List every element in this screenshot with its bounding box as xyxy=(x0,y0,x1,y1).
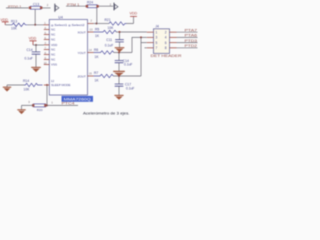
svg-text:6: 6 xyxy=(165,41,167,45)
IC U4 MMA7260Q xyxy=(49,15,87,95)
capacitor C17 xyxy=(115,76,135,95)
svg-text:13: 13 xyxy=(90,28,93,32)
svg-text:10K: 10K xyxy=(108,26,115,30)
wire xyxy=(94,23,110,25)
svg-text:VDD: VDD xyxy=(29,37,37,41)
resistor R24 xyxy=(86,0,99,7)
svg-text:1: 1 xyxy=(44,22,46,25)
svg-text:PTA6: PTA6 xyxy=(185,34,198,38)
ground xyxy=(115,48,125,52)
svg-text:R24: R24 xyxy=(87,0,93,4)
svg-text:15: 15 xyxy=(89,72,92,76)
svg-text:7: 7 xyxy=(156,46,158,50)
wire R21 to VDD xyxy=(127,16,134,23)
junction at sleep pin xyxy=(46,84,48,86)
power VDD right xyxy=(130,12,138,17)
svg-text:1K: 1K xyxy=(95,55,100,59)
wire sleep down xyxy=(46,85,48,105)
svg-text:C14: C14 xyxy=(27,48,33,52)
wire from R23 down to g-Select1 net xyxy=(34,9,36,25)
svg-text:C11: C11 xyxy=(106,38,112,42)
svg-text:2: 2 xyxy=(165,31,167,35)
svg-text:0.1uF: 0.1uF xyxy=(126,86,134,90)
svg-text:R20: R20 xyxy=(37,108,43,112)
wire from chain2 down to g-Select2 net xyxy=(96,8,98,24)
power VDD at IC xyxy=(29,37,37,46)
ground xyxy=(17,110,25,114)
svg-text:3: 3 xyxy=(156,36,158,40)
resistor R23 xyxy=(29,2,43,9)
svg-text:PTD3: PTD3 xyxy=(185,39,198,43)
svg-text:R13: R13 xyxy=(11,20,17,24)
svg-text:R14: R14 xyxy=(23,79,29,83)
svg-text:ZOUT: ZOUT xyxy=(78,74,86,78)
pin stubs left NC rows xyxy=(44,30,50,65)
wire YOUT right xyxy=(114,52,132,54)
svg-text:R5: R5 xyxy=(95,28,99,32)
svg-text:C13: C13 xyxy=(33,2,39,6)
port PTM xyxy=(113,3,115,11)
wire ZOUT up to J4 pin5 xyxy=(141,37,147,76)
svg-text:U4: U4 xyxy=(58,15,63,19)
svg-text:PTM 1: PTM 1 xyxy=(67,3,80,7)
connector J4 xyxy=(151,25,183,59)
svg-text:PTA7: PTA7 xyxy=(185,28,198,32)
svg-text:2: 2 xyxy=(110,2,112,6)
port PTD0 xyxy=(54,4,56,12)
wire ZOUT right xyxy=(113,75,141,77)
pin 2 stub g-Select2 xyxy=(88,23,94,25)
svg-text:12: 12 xyxy=(51,79,55,83)
wire YOUT up to J4 pin3 xyxy=(132,37,147,52)
power VDD left xyxy=(0,18,8,25)
wire xyxy=(6,7,29,9)
ground xyxy=(3,87,11,91)
junction xyxy=(35,44,37,46)
junction xyxy=(118,52,120,54)
pin stubs J4 left xyxy=(147,32,154,48)
capacitor C15 xyxy=(115,53,133,72)
pin 14 stub YOUT xyxy=(88,52,94,54)
svg-text:VDD: VDD xyxy=(0,18,8,22)
svg-text:1: 1 xyxy=(156,31,158,35)
resistor R13 xyxy=(10,20,27,31)
junction xyxy=(140,36,142,38)
wire R20 left to gnd xyxy=(22,105,34,109)
svg-text:XOUT: XOUT xyxy=(77,30,86,34)
svg-text:YOUT: YOUT xyxy=(77,51,86,55)
svg-text:SLEEP MODE: SLEEP MODE xyxy=(51,83,71,87)
wire to PTD3 xyxy=(177,42,198,44)
svg-text:R21: R21 xyxy=(105,18,111,22)
ground xyxy=(31,67,41,72)
pin 12 stub SLEEP xyxy=(44,84,50,86)
pin stubs J4 right xyxy=(170,32,177,48)
junction xyxy=(34,24,36,26)
ground xyxy=(114,95,123,99)
pin 1 stub g-Select1 xyxy=(44,24,50,26)
svg-text:PTD2: PTD2 xyxy=(185,44,198,48)
resistor R6 xyxy=(94,48,114,59)
junction xyxy=(96,23,98,25)
resistor R20 bottom xyxy=(28,100,46,112)
svg-text:0.1uF: 0.1uF xyxy=(105,43,113,47)
svg-text:Acelerómetro de 3 ejes.: Acelerómetro de 3 ejes. xyxy=(83,112,130,116)
svg-text:VSS: VSS xyxy=(51,63,57,67)
resistor R21 xyxy=(105,18,127,30)
capacitor C14 xyxy=(25,45,41,67)
svg-text:R6: R6 xyxy=(94,48,98,52)
svg-text:PTC4: PTC4 xyxy=(62,101,75,105)
ground xyxy=(113,71,125,76)
wire to PTC4 xyxy=(47,104,78,106)
wire to PTA6 xyxy=(177,36,198,38)
svg-text:2: 2 xyxy=(91,19,93,23)
svg-text:1: 1 xyxy=(51,101,53,105)
svg-text:10K: 10K xyxy=(24,88,31,92)
wire stub J4 pin7 xyxy=(145,47,147,49)
svg-text:g.Select1 g.Select2: g.Select1 g.Select2 xyxy=(51,23,85,27)
wire to pin g-Select1 xyxy=(27,24,43,26)
wire R14 to gnd xyxy=(7,85,24,87)
wire xyxy=(5,24,10,26)
svg-text:4: 4 xyxy=(165,36,167,40)
wire VDD to pin 3 xyxy=(33,44,44,46)
wire to PTA7 xyxy=(177,31,198,33)
svg-text:VDD: VDD xyxy=(130,12,138,16)
resistor R14 xyxy=(23,79,43,91)
svg-text:MMA7260Q: MMA7260Q xyxy=(64,98,91,102)
wire XOUT to J4 pin1 xyxy=(116,31,147,33)
svg-text:VDD: VDD xyxy=(51,43,58,47)
svg-text:1K: 1K xyxy=(95,78,100,82)
junction xyxy=(118,75,120,77)
junction xyxy=(46,104,48,106)
svg-text:1K: 1K xyxy=(95,34,100,38)
pin 15 stub ZOUT xyxy=(88,75,94,77)
svg-text:5: 5 xyxy=(156,41,158,45)
svg-text:8: 8 xyxy=(165,46,167,50)
svg-text:10K: 10K xyxy=(11,26,18,30)
wire xyxy=(66,5,87,7)
resistor R5 xyxy=(94,28,117,38)
capacitor C11 xyxy=(105,32,124,48)
resistor R7 xyxy=(94,71,114,83)
part MMA7260Q highlighted xyxy=(62,96,94,102)
svg-text:DET HEADER: DET HEADER xyxy=(151,54,183,58)
svg-text:0.1uF: 0.1uF xyxy=(124,63,132,67)
pin numbers left xyxy=(44,27,47,65)
svg-text:3: 3 xyxy=(28,100,30,104)
junction xyxy=(119,31,121,33)
svg-text:R7: R7 xyxy=(94,71,98,75)
wire xyxy=(42,7,50,9)
svg-text:14: 14 xyxy=(89,48,92,52)
pin 13 stub XOUT xyxy=(88,31,94,33)
svg-text:0.1uF: 0.1uF xyxy=(25,56,33,60)
wire xyxy=(99,5,113,7)
svg-text:J4: J4 xyxy=(155,25,159,29)
wire to PTD2 xyxy=(177,47,198,49)
svg-text:2: 2 xyxy=(47,3,49,7)
